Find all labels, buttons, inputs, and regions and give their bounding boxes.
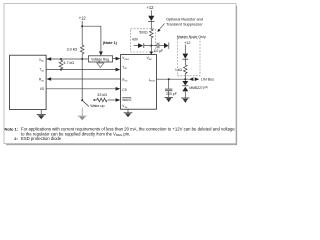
- junction dot at +12 branch: [81, 25, 83, 27]
- svg-text:Optional Resistor and: Optional Resistor and: [166, 17, 203, 21]
- svg-text:33 kΩ: 33 kΩ: [97, 93, 107, 97]
- resistor 1 kOhm: [184, 65, 188, 74]
- wire from +12 down to junction: [81, 21, 83, 26]
- svg-text:+12: +12: [79, 16, 87, 21]
- wire branch to Note 1 drop: [82, 26, 101, 52]
- figure frame shadow: [6, 6, 237, 145]
- svg-text:43V: 43V: [132, 38, 139, 42]
- voltage regulator box: [88, 56, 112, 62]
- svg-text:I/O: I/O: [40, 87, 45, 91]
- zener 43V transient suppressor: [134, 45, 138, 47]
- svg-text:2:: 2:: [14, 136, 18, 141]
- svg-text:4.7 kΩ: 4.7 kΩ: [63, 61, 74, 65]
- diode D2 (master pull-up): [182, 54, 188, 59]
- LIN Bus double arrow: [189, 77, 194, 81]
- junction dot on VDD line: [81, 58, 83, 60]
- wire +12 to diode D2: [184, 45, 186, 54]
- wire LBUS: [157, 78, 190, 80]
- wire resistor to VDD line: [81, 54, 83, 59]
- svg-text:LIN Bus: LIN Bus: [201, 78, 214, 82]
- ground (transceiver VSS): [124, 109, 133, 117]
- svg-text:3.9 kΩ: 3.9 kΩ: [67, 47, 78, 51]
- wire RXD: [51, 78, 120, 80]
- wire I/O to CS: [46, 88, 116, 90]
- ground (wake switch, gray): [78, 108, 87, 121]
- leader arrow to optional box: [159, 23, 165, 29]
- ground (1.0 uF, sideways arrow): [164, 43, 168, 48]
- svg-text:+12: +12: [184, 41, 190, 45]
- ground (220 pF): [165, 97, 173, 102]
- resistor 3.9 kOhm: [80, 45, 84, 54]
- LIN transceiver block: [121, 55, 157, 110]
- arrow into CS pin: [116, 87, 121, 91]
- svg-text:1 kΩ: 1 kΩ: [175, 68, 183, 72]
- arrow into VREG pin: [116, 57, 121, 61]
- svg-text:Note 1:: Note 1:: [5, 127, 19, 132]
- wire +12 to diode: [150, 10, 152, 16]
- wire voltage regulator output: [113, 58, 116, 60]
- arrow into voltage regulator: [99, 52, 103, 56]
- arrow into WAKE pin: [116, 98, 121, 102]
- svg-text:1.0 µF: 1.0 µF: [154, 49, 164, 53]
- arrow into VBB pin (top entry): [149, 52, 153, 55]
- svg-text:Voltage Reg.: Voltage Reg.: [91, 57, 110, 61]
- optional dashed box: [131, 29, 156, 52]
- master node dashed box: [178, 39, 201, 76]
- capacitor 220 pF: [168, 79, 170, 89]
- svg-text:ESD protection diode: ESD protection diode: [21, 136, 62, 141]
- svg-text:Master Node Only: Master Node Only: [177, 35, 206, 39]
- TVS MMBZ27V: [184, 79, 186, 81]
- wire down to wake switch: [81, 59, 83, 100]
- resistor 4.7 kOhm: [60, 58, 62, 60]
- wire TXD: [46, 69, 116, 71]
- ground (MMBZ): [181, 98, 189, 103]
- wire switch to resistor: [93, 99, 95, 101]
- arrow into MCU RXD: [46, 77, 51, 81]
- svg-text:WAKE: WAKE: [122, 98, 131, 102]
- junction dot 220pF: [168, 78, 170, 80]
- wire diode to 1k resistor: [184, 59, 186, 65]
- svg-text:Transient Suppressor: Transient Suppressor: [166, 22, 203, 26]
- wire resistor to LBUS: [184, 74, 186, 80]
- capacitor 1.0 uF: [151, 45, 157, 47]
- resistor 33 kOhm: [97, 98, 107, 102]
- junction dot VBB node: [150, 45, 152, 47]
- junction dot MMBZ: [184, 78, 186, 80]
- switch contact dot: [81, 99, 83, 101]
- svg-text:+12: +12: [147, 5, 155, 10]
- diode D1 (reverse protection): [148, 16, 154, 21]
- ground (MCU): [37, 110, 46, 120]
- arrow into MCU VDD: [46, 57, 51, 61]
- svg-text:Wake-up: Wake-up: [90, 104, 104, 108]
- arrow into TXD pin: [116, 68, 121, 72]
- svg-text:(Note 1): (Note 1): [103, 41, 118, 45]
- wire +12 down to resistor: [81, 26, 83, 45]
- svg-text:500Ω: 500Ω: [139, 31, 148, 35]
- wire diode to resistor: [150, 21, 152, 29]
- microcontroller block: [10, 55, 47, 109]
- svg-text:CS: CS: [122, 88, 126, 92]
- wire VDD line: [46, 58, 88, 60]
- svg-text:220 pF: 220 pF: [166, 92, 177, 96]
- switch blade (wake-up): [83, 101, 89, 106]
- resistor 500 Ohm: [150, 29, 154, 38]
- wire resistor to WAKE pin: [108, 99, 116, 101]
- ground (voltage regulator, open): [99, 62, 101, 63]
- wire resistor to VBB junction: [150, 38, 152, 52]
